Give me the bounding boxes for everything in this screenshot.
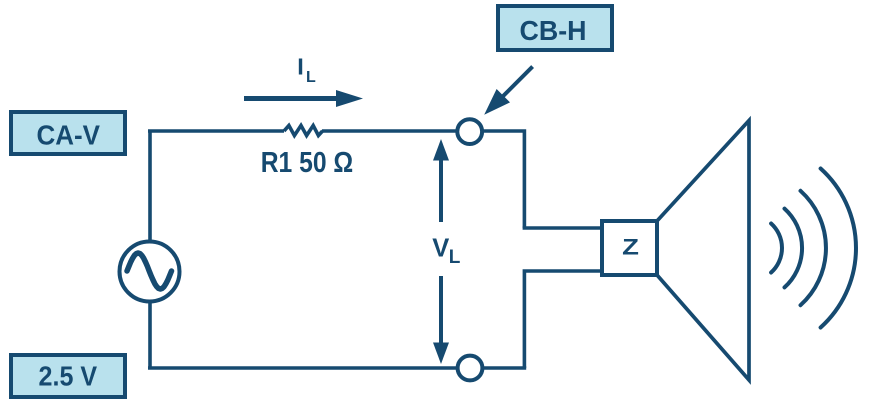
sound wave arc 4 [821, 169, 856, 328]
impedance Z box [602, 221, 657, 275]
pointer arrow from CB-H box to top node [484, 67, 532, 115]
node: top probe point [457, 119, 482, 144]
label VL [432, 234, 461, 268]
current direction arrow [244, 90, 363, 107]
label box CB-H [498, 6, 612, 50]
wire: top horizontal left of resistor [148, 129, 284, 133]
wire: left vertical lower segment [148, 301, 152, 368]
label box 2.5 V [11, 355, 125, 397]
VL measurement arrow up [433, 139, 449, 222]
svg-text:L: L [306, 69, 316, 86]
wire: top horizontal right of resistor to node [322, 129, 458, 133]
sound wave arc 3 [801, 191, 826, 305]
sound wave arc 2 [785, 209, 803, 288]
svg-text:CB-H: CB-H [520, 15, 587, 46]
svg-text:R1 50 Ω: R1 50 Ω [261, 147, 354, 179]
wire: upper stub to Z box [523, 226, 602, 230]
svg-text:I: I [297, 54, 304, 80]
wire: left vertical upper segment [148, 131, 152, 243]
node: bottom probe point [458, 356, 483, 381]
wire: node to top-right corner and down [480, 131, 524, 228]
svg-text:L: L [449, 247, 461, 268]
speaker horn [657, 121, 749, 381]
wire: lower stub from Z box and down to bottom [524, 271, 602, 368]
svg-text:2.5 V: 2.5 V [39, 361, 98, 392]
label box CA-V [11, 112, 125, 154]
svg-text:Z: Z [622, 235, 639, 260]
ac source V1 [120, 242, 180, 302]
wire: bottom horizontal [148, 366, 526, 370]
label IL [297, 54, 316, 87]
resistor R1 zigzag [284, 126, 323, 136]
sound wave arc 1 [771, 224, 782, 273]
VL measurement arrow down [433, 276, 449, 364]
svg-text:V: V [432, 234, 449, 262]
svg-text:CA-V: CA-V [36, 120, 100, 151]
